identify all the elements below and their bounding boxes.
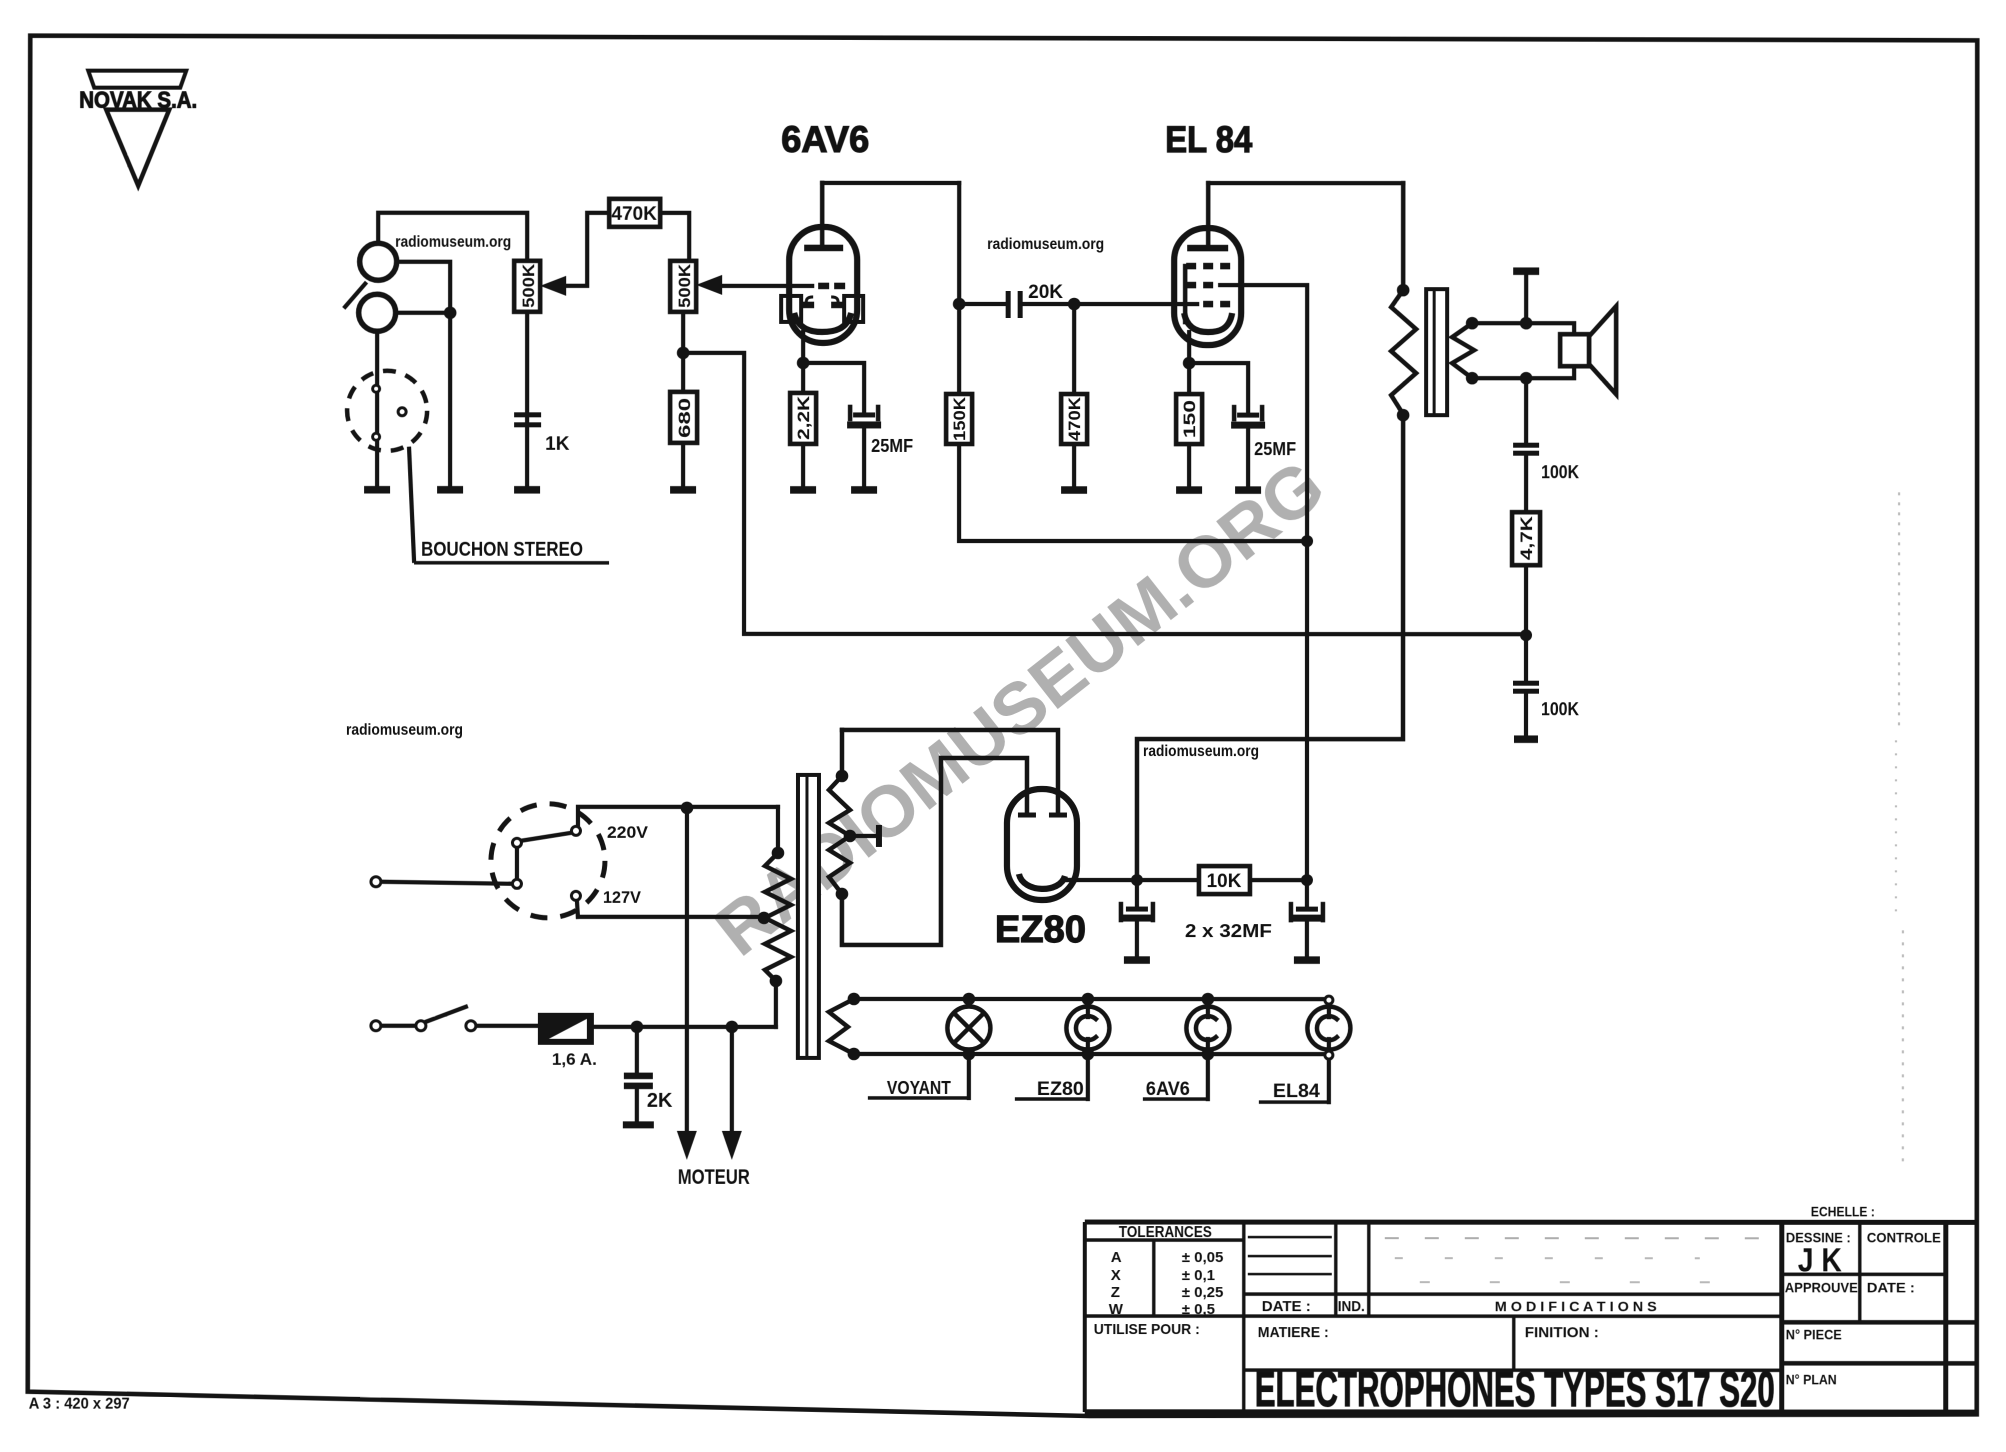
svg-text:± 0,05: ± 0,05 (1182, 1249, 1224, 1266)
svg-text:ECHELLE :: ECHELLE : (1811, 1203, 1875, 1219)
svg-text:radiomuseum.org: radiomuseum.org (395, 234, 511, 251)
svg-text:EL 84: EL 84 (1165, 119, 1252, 160)
svg-text:470K: 470K (1065, 396, 1084, 441)
svg-text:CONTROLE: CONTROLE (1867, 1229, 1941, 1245)
svg-text:radiomuseum.org: radiomuseum.org (987, 236, 1104, 253)
svg-text:2 x 32MF: 2 x 32MF (1185, 921, 1272, 941)
svg-text:DATE :: DATE : (1867, 1279, 1915, 1295)
svg-text:100K: 100K (1541, 462, 1579, 482)
svg-text:100K: 100K (1541, 699, 1579, 719)
svg-text:500K: 500K (675, 263, 694, 308)
svg-text:EZ80: EZ80 (995, 909, 1086, 951)
svg-text:6AV6: 6AV6 (781, 119, 869, 160)
svg-text:6AV6: 6AV6 (1146, 1079, 1190, 1100)
svg-text:A 3 : 420 x 297: A 3 : 420 x 297 (29, 1396, 130, 1413)
svg-text:N° PIECE: N° PIECE (1786, 1326, 1842, 1342)
svg-text:W: W (1109, 1301, 1124, 1318)
svg-text:150: 150 (1180, 400, 1199, 438)
svg-text:± 0,25: ± 0,25 (1182, 1284, 1224, 1301)
svg-text:10K: 10K (1207, 871, 1242, 892)
svg-text:680: 680 (675, 398, 694, 438)
svg-text:X: X (1111, 1267, 1121, 1284)
svg-text:M O D I F I C A T I O N S: M O D I F I C A T I O N S (1495, 1298, 1657, 1314)
svg-text:MATIERE :: MATIERE : (1258, 1324, 1329, 1341)
svg-text:VOYANT: VOYANT (887, 1078, 951, 1098)
svg-text:20K: 20K (1028, 282, 1063, 303)
svg-text:J K: J K (1798, 1241, 1842, 1278)
svg-text:N° PLAN: N° PLAN (1786, 1371, 1837, 1387)
svg-text:2K: 2K (647, 1090, 673, 1112)
svg-text:UTILISE POUR :: UTILISE POUR : (1094, 1321, 1200, 1338)
svg-text:MOTEUR: MOTEUR (678, 1166, 750, 1189)
svg-text:± 0,1: ± 0,1 (1182, 1267, 1215, 1284)
svg-text:500K: 500K (519, 263, 538, 308)
svg-text:127V: 127V (603, 888, 642, 907)
svg-text:BOUCHON STEREO: BOUCHON STEREO (421, 539, 583, 561)
svg-text:150K: 150K (950, 396, 969, 441)
svg-text:470K: 470K (611, 204, 657, 225)
svg-text:± 0,5: ± 0,5 (1182, 1301, 1215, 1318)
svg-text:Z: Z (1111, 1284, 1120, 1301)
svg-text:25MF: 25MF (1254, 439, 1296, 459)
svg-text:EZ80: EZ80 (1037, 1079, 1084, 1100)
svg-text:TOLERANCES: TOLERANCES (1119, 1224, 1212, 1241)
svg-text:ELECTROPHONES TYPES S17 S20: ELECTROPHONES TYPES S17 S20 (1255, 1361, 1775, 1417)
svg-text:4,7K: 4,7K (1517, 515, 1536, 560)
svg-text:DATE :: DATE : (1262, 1298, 1311, 1315)
svg-text:radiomuseum.org: radiomuseum.org (346, 722, 463, 739)
svg-text:APPROUVE: APPROUVE (1785, 1279, 1858, 1295)
svg-text:radiomuseum.org: radiomuseum.org (1143, 743, 1259, 760)
svg-text:EL84: EL84 (1273, 1081, 1320, 1102)
svg-text:A: A (1111, 1249, 1122, 1266)
svg-text:IND.: IND. (1338, 1298, 1365, 1315)
svg-text:220V: 220V (607, 823, 649, 842)
svg-text:1K: 1K (545, 434, 570, 455)
svg-text:2,2K: 2,2K (794, 395, 813, 440)
svg-text:FINITION :: FINITION : (1525, 1324, 1599, 1341)
svg-text:1,6 A.: 1,6 A. (552, 1050, 597, 1069)
svg-text:25MF: 25MF (871, 436, 913, 456)
